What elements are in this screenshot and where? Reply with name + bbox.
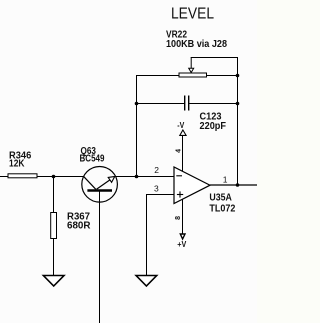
ground symbol middle: [136, 276, 157, 287]
wire op-amp pin 8 to +V: [182, 199, 184, 233]
wire transistor emitter to pin 2 junction: [116, 176, 137, 178]
svg-text:TL072: TL072: [209, 204, 235, 215]
svg-text:3: 3: [154, 184, 159, 194]
power symbol -V triangle: [180, 130, 186, 135]
wire wiper vertical: [190, 58, 192, 69]
wire cap right: [189, 103, 237, 105]
resistor R367 body: [51, 213, 57, 239]
svg-text:12K: 12K: [9, 158, 25, 169]
wire wiper to right rail: [191, 57, 238, 59]
node junction R346 / R367: [52, 175, 56, 179]
power symbol +V triangle: [180, 234, 185, 239]
wire output pin 1: [210, 184, 257, 186]
wire pot left terminal to left rail: [137, 76, 180, 177]
node junction pot right / rail: [236, 74, 240, 78]
node junction cap left / left rail: [135, 102, 139, 106]
svg-text:BC549: BC549: [80, 154, 105, 165]
wire cap left: [137, 103, 185, 105]
resistor R346 body: [8, 174, 37, 178]
svg-text:U35A: U35A: [209, 192, 232, 203]
wire R367 to ground: [53, 239, 55, 276]
op-amp U35A: [174, 167, 210, 204]
svg-text:+V: +V: [177, 240, 187, 249]
node junction cap right / right rail: [236, 102, 240, 106]
wire non-inverting input pin 3 to ground: [147, 195, 175, 276]
svg-text:-V: -V: [177, 121, 185, 130]
potentiometer VR22 wiper arrow: [189, 68, 194, 72]
wire -V to op-amp pin 4: [182, 135, 184, 171]
node junction pin 2 / left rail: [135, 175, 139, 179]
wire pot right terminal: [207, 75, 238, 77]
svg-text:2: 2: [154, 165, 159, 175]
svg-text:4: 4: [175, 149, 182, 153]
wire junction down to R367: [53, 177, 55, 213]
svg-text:680R: 680R: [67, 221, 91, 232]
wire inverting input pin 2: [137, 176, 175, 178]
potentiometer VR22 body: [179, 73, 207, 77]
svg-text:100KB via J28: 100KB via J28: [166, 39, 227, 50]
svg-text:8: 8: [175, 216, 182, 220]
svg-text:LEVEL: LEVEL: [171, 6, 214, 23]
wire transistor base lead to bottom edge: [99, 192, 101, 323]
capacitor C123 plates: [185, 96, 189, 111]
ground symbol left: [43, 276, 64, 287]
node junction output / right rail: [236, 183, 240, 187]
wire R346 to transistor: [37, 176, 84, 178]
transistor Q63: [82, 167, 118, 203]
wire right rail: [237, 57, 239, 185]
svg-text:1: 1: [223, 174, 228, 184]
svg-text:220pF: 220pF: [200, 121, 227, 132]
wire input left edge to R346: [0, 176, 8, 178]
